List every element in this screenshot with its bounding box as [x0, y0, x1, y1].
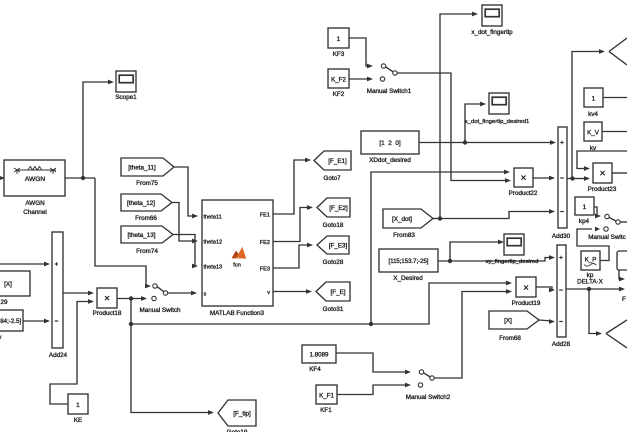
svg-text:[1 2 0]: [1 2 0] [379, 140, 401, 147]
wire kv4 output to right edge [603, 97, 627, 99]
svg-text:DELTA·X: DELTA·X [577, 279, 603, 286]
wire Product19 output to Add28 [536, 287, 552, 290]
svg-text:[theta_12]: [theta_12] [127, 200, 155, 207]
block scope xy_fingertip_desired [504, 234, 524, 255]
wire v to Goto31 [273, 291, 309, 293]
block at right edge (cut) [617, 251, 627, 270]
svg-text:[F_E2]: [F_E2] [329, 205, 348, 212]
sum block Add28 [557, 245, 566, 337]
svg-text:1: 1 [337, 36, 341, 43]
svg-text:KF4: KF4 [309, 366, 321, 373]
block Product23 [593, 163, 612, 183]
svg-text:[F_E3]: [F_E3] [329, 242, 348, 249]
svg-text:[F_E1]: [F_E1] [328, 158, 347, 165]
svg-text:Goto7: Goto7 [323, 175, 341, 182]
svg-text:Add28: Add28 [552, 341, 571, 348]
wire KF4 to Manual Switch2 top input [336, 353, 408, 372]
wire Manual Switch2 output up to Product19 bottom input [434, 292, 509, 379]
svg-text:[115;153.7;-25]: [115;153.7;-25] [389, 259, 429, 265]
svg-text:×: × [523, 283, 529, 294]
block scope x_dot_fingertip_desired1 [489, 93, 509, 114]
wire Add30 output: up to switch and to Product23 [567, 52, 602, 179]
svg-text:29: 29 [0, 299, 8, 306]
block Product18 [97, 288, 117, 308]
block K_V [584, 122, 602, 141]
wire Manual Switch1 output to Product22 bottom input [397, 73, 508, 181]
wire kp4 to Manual Switch top input [594, 207, 598, 216]
svg-text:×: × [104, 294, 110, 305]
svg-text:fcn: fcn [233, 263, 241, 269]
block scope x_dot_fingertip [482, 5, 502, 26]
wire into AWGN Channel input [0, 177, 3, 179]
goto block Goto19 [F_tip] [218, 400, 256, 426]
wire Product22 output to Add30 [533, 177, 552, 179]
svg-text:F: F [622, 296, 626, 303]
block KE constant 1 [68, 394, 88, 414]
wire KF2 to Manual Switch1 bottom input [349, 78, 370, 80]
svg-text:KF1: KF1 [320, 407, 332, 414]
svg-text:×: × [521, 173, 527, 184]
block From29 [X] (cut at left edge) [0, 271, 30, 296]
svg-text:KE: KE [74, 417, 82, 424]
svg-text:[X]: [X] [4, 281, 12, 288]
svg-text:1: 1 [592, 96, 596, 103]
block XDdot_desired constant [1 2 0] [361, 131, 419, 154]
block AWGN Channel [4, 160, 65, 196]
svg-text:v: v [267, 290, 270, 296]
svg-text:AWGN: AWGN [25, 176, 46, 183]
svg-text:X_Desired: X_Desired [393, 275, 423, 282]
svg-text:K_P: K_P [585, 257, 597, 264]
svg-text:Product18: Product18 [93, 310, 122, 317]
block X_Desired constant [379, 249, 438, 272]
svg-text:Product19: Product19 [512, 300, 541, 307]
block MATLAB Function3 [202, 200, 273, 306]
block K_P [581, 251, 600, 270]
wire From75 to MATLAB Function3 input 1 [174, 167, 194, 216]
manual switch Manual Switch (lever, ports) [153, 284, 157, 288]
svg-text:From83: From83 [393, 232, 415, 239]
wire From68 to Add28 minus [539, 320, 552, 321]
svg-text:XDdot_desired: XDdot_desired [369, 157, 411, 164]
block Product22 [514, 168, 533, 187]
wire X_Desired to Add28 plus with scope branch [438, 258, 552, 262]
wire K_V output to right edge [602, 131, 627, 133]
block KF4 constant 1.8089 [302, 345, 336, 363]
svg-text:[115;153.84;-2.5]: [115;153.84;-2.5] [0, 318, 21, 325]
svg-text:x_dot_fingertip_desired1: x_dot_fingertip_desired1 [465, 119, 530, 125]
goto block Goto18 [F_E2] [317, 198, 350, 217]
wire KE to Product18 second input [50, 302, 91, 405]
svg-text:Scope1: Scope1 [115, 94, 137, 101]
svg-text:s: s [204, 292, 207, 298]
svg-text:theta12: theta12 [204, 240, 223, 246]
block Product19 [516, 277, 536, 297]
svg-text:theta13: theta13 [204, 265, 223, 271]
svg-text:Channel: Channel [23, 209, 46, 216]
svg-text:From68: From68 [499, 335, 521, 342]
svg-text:xy_fingertip_desired: xy_fingertip_desired [486, 259, 539, 265]
switch block (cut at right edge, bottom) [606, 320, 627, 348]
svg-text:Manual Switch1: Manual Switch1 [367, 88, 412, 95]
wire XDdot_desired to Add30 plus and scope branch [419, 142, 553, 144]
block KF1 constant K_F1 [316, 385, 337, 404]
svg-text:×: × [600, 169, 606, 180]
wire Product18 output net: to Manual Switch, Goto19, Product22, Product19 [117, 298, 144, 300]
goto block Goto7 [F_E1] [314, 151, 351, 170]
svg-text:Product22: Product22 [509, 190, 538, 197]
svg-text:Manual Switc: Manual Switc [588, 234, 625, 241]
svg-text:From75: From75 [136, 180, 158, 187]
wire From83 to Add30 minus input and up to scope x_dot_fingertip [433, 218, 440, 220]
goto block Goto28 [F_E3] [317, 236, 349, 254]
svg-text:Product23: Product23 [588, 186, 617, 193]
block kp4 constant 1 [575, 197, 594, 215]
wire KF1 to Manual Switch2 bottom input [337, 385, 408, 395]
wire Add24 output to Product18 [63, 292, 91, 294]
block Scope1 [116, 71, 136, 92]
svg-text:theta11: theta11 [204, 215, 222, 221]
svg-text:[theta_13]: [theta_13] [127, 232, 155, 239]
svg-text:1.8089: 1.8089 [310, 352, 329, 359]
sum block Add24 [52, 232, 63, 348]
MATLAB logo [232, 251, 239, 259]
wire FE1 to Goto7 [273, 160, 308, 214]
wire FE2 to Goto18 [273, 208, 310, 242]
svg-text:Goto18: Goto18 [323, 222, 344, 229]
svg-text:MATLAB Function3: MATLAB Function3 [210, 310, 265, 317]
block kv4 constant 1 [584, 88, 603, 107]
manual switch Manual Switch (right, cut) [605, 214, 609, 218]
wire from right-edge block down and out [619, 270, 621, 279]
wire Add28 output to right edge and down to switch [566, 288, 621, 290]
wire feedback from right edge into Product23 top input [577, 151, 627, 169]
svg-text:[X_dot]: [X_dot] [392, 216, 412, 223]
svg-text:K_F1: K_F1 [319, 393, 334, 400]
svg-text:Add24: Add24 [49, 352, 68, 359]
svg-text:Goto31: Goto31 [323, 306, 344, 313]
block From74 [theta_13] [121, 226, 173, 243]
svg-text:1: 1 [76, 402, 80, 409]
manual switch Manual Switch2 [419, 370, 423, 374]
svg-text:K_V: K_V [587, 130, 600, 137]
wire KF3 to Manual Switch1 top input [349, 38, 370, 66]
wire AWGN output to junction, scope branch and down to Manual Switch [65, 177, 95, 179]
manual switch Manual Switch1 [381, 64, 385, 68]
svg-text:1: 1 [583, 204, 587, 211]
svg-text:FE2: FE2 [260, 240, 270, 246]
wire Product23 output to right edge [612, 172, 627, 174]
svg-text:K_F2: K_F2 [331, 77, 346, 84]
goto block Goto31 [F_E] [316, 282, 350, 301]
svg-text:[F_E]: [F_E] [330, 289, 345, 296]
svg-text:FE3: FE3 [260, 267, 270, 273]
svg-text:AWGN: AWGN [25, 200, 45, 207]
block Constant [..4;-2.5] (cut at left edge) [0, 310, 23, 331]
switch block (cut at right edge, top) [609, 38, 627, 65]
block From83 [X_dot] [383, 209, 433, 228]
wire into Add24 plus input [0, 263, 47, 265]
wire K_P output loop to manual switch bottom input [577, 229, 609, 261]
svg-text:Goto28: Goto28 [323, 259, 344, 266]
svg-text:From74: From74 [136, 248, 158, 255]
svg-text:x_dot_fingertip: x_dot_fingertip [471, 29, 513, 36]
wire From66 to MATLAB Function3 input 2 [172, 203, 194, 242]
block From75 [theta_11] [121, 158, 174, 176]
svg-text:v: v [0, 334, 2, 341]
svg-text:[X]: [X] [504, 317, 512, 324]
svg-text:kv4: kv4 [588, 111, 598, 118]
wire Constant to Add24 minus input [23, 320, 47, 322]
svg-text:FE1: FE1 [260, 213, 270, 219]
svg-text:Manual Switch: Manual Switch [140, 307, 181, 314]
wire FE3 to Goto28 [273, 245, 310, 268]
svg-text:kp4: kp4 [579, 218, 590, 225]
svg-text:KF2: KF2 [333, 91, 345, 98]
block From68 [X] [489, 311, 539, 329]
svg-text:[theta_11]: [theta_11] [128, 164, 156, 171]
block KF3 constant 1 [328, 28, 349, 48]
svg-text:[F_tip]: [F_tip] [233, 410, 251, 417]
sum block Add30 [558, 127, 567, 228]
svg-text:From66: From66 [135, 215, 157, 222]
svg-text:Add30: Add30 [552, 233, 571, 240]
block From66 [theta_12] [121, 194, 172, 211]
block KF2 constant K_F2 [328, 69, 349, 88]
svg-text:Manual Switch2: Manual Switch2 [406, 394, 451, 401]
wire From74 to MATLAB Function3 input 3 [173, 235, 195, 267]
svg-text:KF3: KF3 [333, 51, 345, 58]
